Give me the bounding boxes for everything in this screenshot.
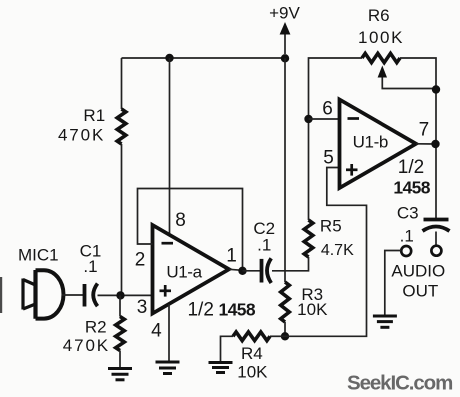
resistor R6 potentiometer bbox=[362, 53, 400, 62]
wire pin 8 vertical bbox=[169, 58, 171, 235]
svg-text:OUT: OUT bbox=[402, 282, 438, 301]
op-amp U1-b bbox=[340, 100, 417, 189]
wire R6 right to output branch bbox=[400, 58, 436, 218]
scan edge artifact bbox=[0, 277, 2, 313]
wire +9V junction down to R3 bbox=[284, 58, 286, 282]
wire R5 top to pin 6 node and R6 loop bbox=[309, 58, 363, 220]
terminal audio out right bbox=[431, 246, 441, 256]
svg-text:1: 1 bbox=[226, 246, 237, 267]
wire pin 6 to U1-b bbox=[309, 118, 340, 120]
svg-text:MIC1: MIC1 bbox=[18, 246, 59, 265]
svg-text:8: 8 bbox=[175, 210, 186, 231]
terminal audio out left bbox=[401, 246, 411, 256]
node pin 7 junction bbox=[431, 140, 439, 148]
svg-text:.1: .1 bbox=[257, 236, 271, 255]
wire pin 4 to ground bbox=[168, 304, 170, 362]
R6 wiper arrow bbox=[378, 66, 436, 89]
node U1-a output junction bbox=[238, 267, 246, 275]
svg-text:R1: R1 bbox=[83, 106, 105, 125]
wire R4 right lead bbox=[270, 335, 285, 337]
capacitor C3 bbox=[423, 220, 450, 232]
capacitor C2 bbox=[262, 258, 272, 283]
svg-text:100K: 100K bbox=[358, 28, 404, 47]
svg-text:10K: 10K bbox=[237, 363, 268, 382]
node wiper junction bbox=[432, 85, 440, 93]
svg-text:10K: 10K bbox=[297, 300, 328, 319]
svg-text:7: 7 bbox=[419, 120, 430, 141]
svg-text:470K: 470K bbox=[58, 126, 105, 145]
svg-text:3: 3 bbox=[137, 297, 148, 318]
wire R1 bottom to mic node bbox=[121, 144, 123, 295]
node mic input junction bbox=[116, 291, 124, 299]
wire R4 left lead to ground bbox=[221, 336, 234, 361]
wire mic node down to R2 bbox=[119, 295, 121, 316]
node top rail to pin 8 junction bbox=[165, 54, 173, 62]
wire C3 to output terminal bbox=[435, 232, 437, 246]
svg-text:4: 4 bbox=[151, 321, 162, 342]
svg-text:SeekIC.com: SeekIC.com bbox=[347, 371, 452, 394]
svg-text:6: 6 bbox=[322, 99, 333, 120]
wire R2 to ground bbox=[119, 351, 121, 369]
svg-text:+9V: +9V bbox=[269, 4, 300, 23]
svg-text:R2: R2 bbox=[85, 318, 107, 337]
resistor R3 bbox=[281, 282, 290, 322]
wire U1-a output bbox=[229, 269, 243, 270]
resistor R1 bbox=[117, 109, 126, 144]
wire C1 to mic node bbox=[98, 294, 153, 296]
svg-text:R4: R4 bbox=[241, 344, 263, 363]
svg-text:2: 2 bbox=[135, 250, 146, 271]
ground R4 bbox=[209, 363, 233, 373]
svg-text:470K: 470K bbox=[63, 336, 110, 355]
op-amp U1-a bbox=[153, 225, 230, 314]
svg-text:R5: R5 bbox=[320, 217, 342, 236]
node pin 6 junction bbox=[304, 115, 312, 123]
svg-text:1/2: 1/2 bbox=[187, 300, 213, 321]
svg-text:R6: R6 bbox=[368, 6, 390, 25]
resistor R4 bbox=[233, 332, 270, 341]
svg-text:U1-a: U1-a bbox=[166, 263, 202, 282]
U1-b plus input mark bbox=[346, 164, 358, 176]
power +9V arrow bbox=[280, 22, 291, 54]
ground pin 4 bbox=[156, 362, 180, 374]
wire U1-a feedback loop pin1 to pin2 bbox=[138, 189, 243, 271]
ground audio out bbox=[373, 316, 397, 327]
U1-b minus input mark bbox=[348, 117, 360, 120]
svg-text:1458: 1458 bbox=[219, 300, 256, 320]
ground R2 bbox=[108, 369, 132, 380]
resistor R2 bbox=[116, 317, 125, 351]
wire mic to C1 bbox=[62, 294, 85, 296]
wire R1 branch vertical bbox=[121, 58, 123, 109]
wire C2 to R5 bottom bbox=[272, 257, 309, 271]
U1-a minus input mark bbox=[162, 242, 174, 245]
wire left terminal to ground bbox=[385, 251, 401, 316]
wire R3R4 junction to pin 5 bbox=[285, 168, 367, 337]
wire U1-b output bbox=[416, 143, 436, 145]
node +9V junction bbox=[281, 54, 289, 62]
microphone MIC1 bbox=[23, 270, 63, 319]
svg-text:AUDIO: AUDIO bbox=[391, 262, 445, 281]
svg-text:.1: .1 bbox=[83, 257, 97, 276]
svg-text:1458: 1458 bbox=[393, 178, 430, 198]
capacitor C1 bbox=[85, 284, 98, 307]
wire R3 bottom to junction bbox=[284, 322, 286, 336]
svg-text:5: 5 bbox=[323, 148, 334, 169]
wire top supply rail bbox=[122, 57, 286, 59]
svg-text:1/2: 1/2 bbox=[398, 157, 424, 178]
node R3 R4 junction bbox=[281, 332, 289, 340]
U1-a plus input mark bbox=[160, 285, 172, 297]
resistor R5 bbox=[304, 220, 313, 257]
svg-text:U1-b: U1-b bbox=[353, 133, 388, 152]
wire output to C2 bbox=[243, 270, 261, 272]
svg-text:4.7K: 4.7K bbox=[321, 242, 354, 259]
svg-text:C3: C3 bbox=[397, 204, 419, 223]
svg-text:.1: .1 bbox=[400, 227, 414, 246]
